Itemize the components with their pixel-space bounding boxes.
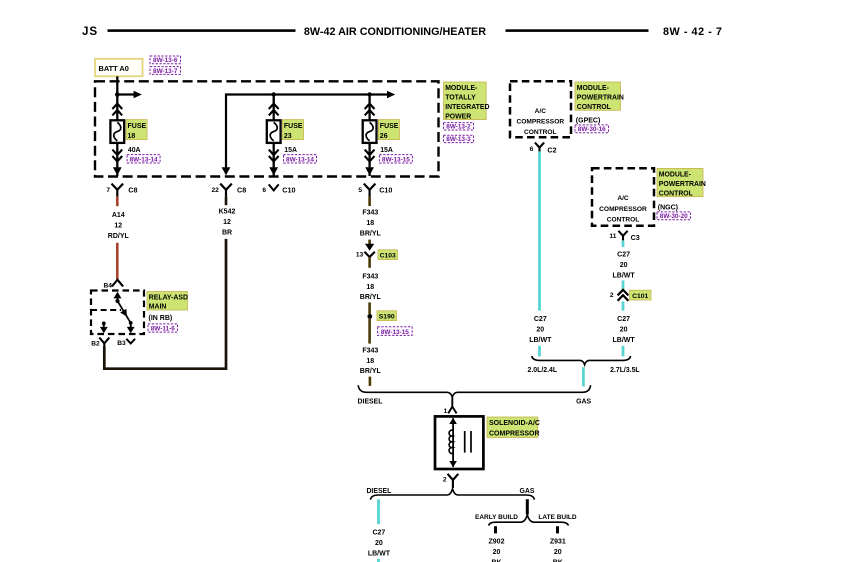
wire Z931 stub [556,526,559,533]
svg-text:8W-11-6: 8W-11-6 [151,326,175,333]
connector chevrons above fuse 26 [365,104,375,109]
svg-text:C8: C8 [128,186,137,195]
svg-text:8W-13-3: 8W-13-3 [446,136,471,143]
connector chevrons below fuse 23 [269,150,279,155]
wire C27 stub to engine brace right [622,346,625,357]
svg-text:C27: C27 [534,316,547,323]
svg-text:12: 12 [223,219,231,226]
svg-text:MODULE-: MODULE- [445,85,478,92]
svg-text:C10: C10 [379,186,392,195]
splice S190 [367,314,372,319]
svg-text:20: 20 [493,549,501,556]
svg-text:GAS: GAS [576,398,591,405]
in-line connector C103 pin 13 [365,244,374,251]
arrow into connector C10 pin 5 [365,167,374,175]
svg-text:(GPEC): (GPEC) [576,118,601,125]
svg-text:7: 7 [106,187,110,194]
svg-text:C27: C27 [372,530,385,537]
label RELAY-ASD MAIN [147,292,188,311]
svg-text:8W-13-6: 8W-13-6 [153,57,178,64]
svg-text:FUSE: FUSE [284,123,303,130]
svg-text:20: 20 [620,326,628,333]
junction node on battery feed [115,92,120,97]
link 8W-30-20 [657,212,691,220]
svg-text:BR/YL: BR/YL [360,368,382,375]
svg-text:15A: 15A [380,147,393,154]
svg-text:FUSE: FUSE [380,123,399,130]
module TIPM dashed outline [95,81,439,176]
svg-text:8W-13-7: 8W-13-7 [153,68,178,75]
svg-text:LB/WT: LB/WT [613,337,636,344]
svg-text:GAS: GAS [520,488,535,495]
link 8W-13-15 at splice [378,327,413,336]
wire fuse 26 feed [368,95,370,121]
wire C27 LB/WT diesel leg [377,499,380,524]
svg-text:B2: B2 [91,340,100,347]
svg-text:POWERTRAIN: POWERTRAIN [659,181,706,188]
brace engine variants 2.0L/2.4L and 2.7L/3.5L [532,356,631,365]
svg-text:DIESEL: DIESEL [366,488,391,495]
wire C27 into C101 [622,280,625,289]
svg-text:6: 6 [262,187,266,194]
svg-text:LB/WT: LB/WT [529,337,552,344]
link 8W-13-6 [150,56,181,64]
wire merged LB/WT to gas brace [582,367,585,386]
wire F343 stub to diesel brace [369,377,372,386]
svg-text:(NGC): (NGC) [658,205,678,212]
svg-text:COMPRESSOR: COMPRESSOR [489,430,540,437]
svg-text:2.7L/3.5L: 2.7L/3.5L [610,367,640,374]
svg-text:Z931: Z931 [550,539,566,546]
svg-text:(IN RB): (IN RB) [149,315,173,322]
module PCM GPEC dashed outline [510,81,571,137]
svg-text:DIESEL: DIESEL [358,398,383,405]
svg-text:F343: F343 [362,274,378,281]
wire C27 below C101 [622,301,625,310]
in-line connector C101 pin 2 [618,290,629,296]
brace early/late build split [489,515,569,526]
arrow into connector C10 pin 6 [269,167,278,175]
header rule left [108,29,296,32]
svg-text:23: 23 [284,133,292,140]
svg-text:LATE BUILD: LATE BUILD [538,514,576,521]
svg-text:C3: C3 [631,233,640,242]
link 8W-13-15 under fuse 26 [379,155,412,163]
wire F343 stub below C10 [368,197,371,206]
brace diesel/gas merge to solenoid [358,385,590,397]
svg-text:40A: 40A [128,147,141,154]
svg-text:MODULE-: MODULE- [659,171,692,178]
svg-text:26: 26 [380,133,388,140]
svg-text:8W-30-20: 8W-30-20 [660,213,688,220]
svg-text:BR: BR [222,229,232,236]
svg-text:LB/WT: LB/WT [613,272,636,279]
svg-text:RELAY-ASD: RELAY-ASD [149,294,188,301]
svg-text:CONTROL: CONTROL [607,216,640,223]
svg-text:18: 18 [366,220,374,227]
svg-text:C27: C27 [617,316,630,323]
svg-text:8W-13-15: 8W-13-15 [382,156,410,163]
svg-text:RD/YL: RD/YL [108,233,130,240]
svg-text:2.0L/2.4L: 2.0L/2.4L [528,367,558,374]
link 8W-13-7 [150,67,181,75]
wire F343 below splice [368,319,371,344]
relay internal dashed divider [91,309,121,311]
svg-text:F343: F343 [362,210,378,217]
wire fuse 23 feed [273,95,275,121]
battery feed box BATT A0 [95,59,143,77]
wire A14 12 RD/YL lower segment [116,243,119,280]
svg-text:20: 20 [554,549,562,556]
svg-text:POWER: POWER [445,113,471,120]
svg-text:B4: B4 [104,282,113,289]
svg-text:F343: F343 [362,348,378,355]
svg-text:18: 18 [366,284,374,291]
relay switch blade to B3 [118,301,131,323]
svg-text:8W-13-14: 8W-13-14 [130,156,158,163]
wire F343 into C103 [368,240,371,246]
svg-text:BR/YL: BR/YL [360,294,382,301]
svg-text:COMPRESSOR: COMPRESSOR [516,119,564,126]
wire gas leg to build split [526,499,529,514]
svg-text:C101: C101 [632,293,648,300]
connector chevrons below fuse 18 [112,150,122,155]
svg-text:A/C: A/C [535,108,547,115]
wire C27 stub at page edge [377,559,380,562]
svg-text:MODULE-: MODULE- [577,85,610,92]
svg-text:BR/YL: BR/YL [360,230,382,237]
svg-text:5: 5 [358,187,362,194]
svg-text:SOLENOID-A/C: SOLENOID-A/C [489,420,540,427]
wire battery A0 into TIPM [116,76,118,120]
link 8W-13-3 [444,135,474,142]
header rule right [506,29,649,32]
wire C27 20 LB/WT from GPEC [538,151,541,310]
solenoid coil symbol [452,418,454,467]
junction node bus at fuse 26 [367,92,371,96]
bus arrow right from battery feed [117,93,134,95]
svg-text:CONTROL: CONTROL [524,129,557,136]
svg-text:8W-30-16: 8W-30-16 [578,126,606,133]
link 8W-13-2 [444,123,474,130]
svg-text:8W-13-14: 8W-13-14 [286,156,314,163]
fuse 18 symbol [110,120,124,143]
connector chevrons above fuse 23 [269,104,279,109]
relay coil arrow up [114,292,122,299]
svg-text:20: 20 [620,262,628,269]
wire K542 upper stub [225,197,228,206]
svg-text:15A: 15A [284,147,297,154]
svg-text:POWERTRAIN: POWERTRAIN [577,94,624,101]
svg-text:Z902: Z902 [489,539,505,546]
svg-text:K542: K542 [219,209,236,216]
svg-text:TOTALLY: TOTALLY [445,95,476,102]
svg-text:MAIN: MAIN [149,304,167,311]
svg-text:22: 22 [211,187,219,194]
svg-text:COMPRESSOR: COMPRESSOR [599,206,647,213]
relay common node [115,299,119,303]
svg-text:C2: C2 [547,146,556,155]
svg-text:B3: B3 [117,340,126,347]
junction node bus at fuse 23 [272,92,276,96]
label FUSE 18 [126,120,147,140]
svg-text:LB/WT: LB/WT [368,550,391,557]
wire C27 stub to engine brace left [538,346,541,357]
svg-text:S190: S190 [379,314,395,321]
svg-text:CONTROL: CONTROL [659,190,693,197]
label FUSE 23 [283,120,304,140]
svg-text:CONTROL: CONTROL [577,104,611,111]
label MODULE-POWERTRAIN CONTROL GPEC [575,82,621,110]
fuse 26 symbol [363,120,377,143]
svg-text:BATT A0: BATT A0 [99,64,129,73]
svg-text:2: 2 [443,477,447,484]
svg-text:C27: C27 [617,252,630,259]
wire bus feeding fuse 23 and fuse 26 [226,95,387,168]
svg-text:8W - 42 - 7: 8W - 42 - 7 [663,26,722,38]
svg-text:1: 1 [444,408,448,415]
solenoid A/C compressor box [435,416,483,469]
label FUSE 26 [378,120,399,140]
wire C27 stub below C3 [622,240,625,247]
wire A14 12 RD/YL upper segment [116,197,119,207]
link 8W-13-14 under fuse 18 [127,155,160,163]
svg-text:2: 2 [610,292,614,299]
svg-text:A/C: A/C [617,195,629,202]
svg-text:C8: C8 [237,186,246,195]
relay ASD dashed outline [91,291,144,335]
arrow into connector C8 pin 7 [113,167,122,175]
svg-text:18: 18 [128,133,136,140]
label MODULE-POWERTRAIN CONTROL NGC [657,168,703,196]
svg-text:8W-42 AIR CONDITIONING/HEATER: 8W-42 AIR CONDITIONING/HEATER [304,26,486,38]
svg-text:11: 11 [609,233,616,240]
connector chevrons below fuse 26 [365,150,375,155]
svg-text:8W-13-2: 8W-13-2 [446,123,471,130]
svg-text:20: 20 [536,326,544,333]
wire K542 from relay B2 to TIPM C8-22 [104,239,226,369]
svg-text:EARLY BUILD: EARLY BUILD [475,514,518,521]
fuse 23 symbol [267,120,281,143]
svg-text:JS: JS [82,25,98,38]
label MODULE-TOTALLY INTEGRATED POWER [444,82,487,120]
svg-text:20: 20 [375,540,383,547]
module PCM NGC dashed outline [592,168,654,226]
svg-text:C10: C10 [282,186,295,195]
wire Z902 stub [494,526,497,533]
svg-text:18: 18 [366,358,374,365]
svg-text:6: 6 [530,146,534,153]
relay contact B2 stub [102,322,106,326]
svg-text:13: 13 [356,251,364,258]
arrow into connector C8 pin 22 [222,167,231,175]
svg-text:8W-13-15: 8W-13-15 [381,329,409,336]
svg-text:12: 12 [114,222,122,229]
solenoid core lines [464,431,466,453]
svg-text:A14: A14 [112,212,125,219]
wire F343 below C103 [368,257,371,267]
label SOLENOID-A/C COMPRESSOR [487,417,538,438]
link 8W-13-14 under fuse 23 [284,155,317,163]
connector chevrons above fuse 18 [112,104,122,109]
link 8W-11-6 [148,324,178,332]
svg-text:INTEGRATED: INTEGRATED [445,104,489,111]
svg-text:FUSE: FUSE [128,123,147,130]
svg-text:C103: C103 [380,253,396,260]
link 8W-30-16 [575,125,609,133]
wire F343 into splice [368,302,371,314]
brace diesel/gas split below solenoid [370,489,534,500]
